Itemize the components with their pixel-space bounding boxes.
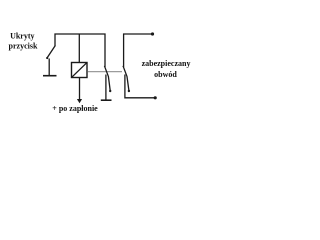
arrow: supply arrowhead (+ po zaplonie) <box>77 99 82 103</box>
wire: top net from hidden button to relay coil and contact K1a (node A) <box>55 34 105 67</box>
mechanical link from coil to contacts (gray) <box>88 71 123 73</box>
wire: contact K1a bottom terminal to ground <box>105 75 107 101</box>
ground: contact K1a ground bar <box>101 99 112 101</box>
switch S1 lever tip dot <box>46 57 48 59</box>
wire: relay coil bottom lead to +12V after ignition <box>79 78 81 100</box>
svg-text:zabezpieczany: zabezpieczany <box>142 59 191 68</box>
node: protected circuit bottom terminal dot <box>154 96 157 99</box>
wire: switch bottom terminal to ground <box>48 59 50 76</box>
contact K1b lever pivot dot <box>128 90 130 92</box>
svg-text:+ po zapłonie: + po zapłonie <box>52 104 98 113</box>
contact K1b lever <box>123 66 129 91</box>
relay coil K1 diagonal <box>72 63 87 78</box>
contact K1a lever <box>104 66 110 91</box>
wire: protected circuit bottom net from contact K1b bottom terminal <box>125 75 155 98</box>
svg-text:przycisk: przycisk <box>9 42 38 51</box>
ground: switch ground bar <box>43 75 57 77</box>
wire: protected circuit top net with contact K1b top terminal <box>124 34 153 67</box>
switch S1 hidden pushbutton lever <box>47 46 55 59</box>
svg-text:Ukryty: Ukryty <box>10 32 34 41</box>
svg-text:obwód: obwód <box>154 70 177 79</box>
node: protected circuit top terminal dot <box>151 32 154 35</box>
wire: branch from top net down to relay coil top <box>78 34 80 63</box>
relay coil K1 box <box>72 63 88 78</box>
contact K1a lever pivot dot <box>109 90 111 92</box>
